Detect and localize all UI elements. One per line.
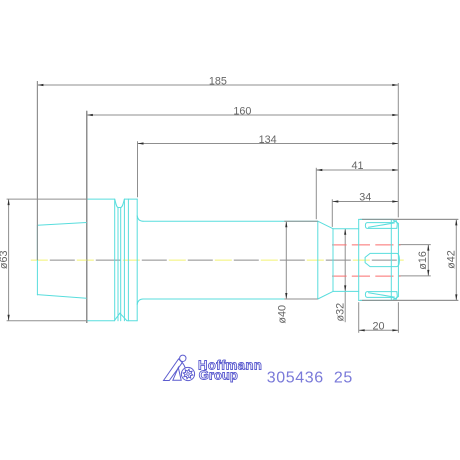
svg-text:160: 160: [233, 106, 251, 118]
svg-text:ø32: ø32: [334, 303, 346, 322]
svg-text:ø63: ø63: [0, 250, 10, 269]
svg-text:34: 34: [359, 192, 371, 204]
svg-text:134: 134: [259, 134, 277, 146]
svg-text:41: 41: [351, 160, 363, 172]
svg-text:ø16: ø16: [417, 251, 429, 270]
svg-text:185: 185: [209, 76, 227, 88]
svg-text:20: 20: [372, 321, 384, 333]
svg-text:305436 25: 305436 25: [267, 370, 353, 387]
svg-text:ø40: ø40: [277, 305, 289, 324]
svg-text:Group: Group: [199, 368, 238, 383]
svg-text:ø42: ø42: [446, 250, 458, 269]
